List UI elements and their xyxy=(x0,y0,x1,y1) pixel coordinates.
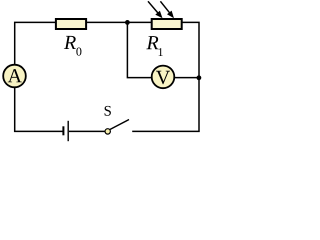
wire: ammeter down across bottom-left corner to battery xyxy=(15,87,63,131)
wire: top middle (R0 to R1) xyxy=(86,21,151,23)
voltmeter V xyxy=(152,66,175,89)
label S xyxy=(105,106,111,116)
node junction right rail xyxy=(197,75,202,80)
wire: voltmeter to right rail xyxy=(174,77,199,79)
label R1 xyxy=(146,36,158,49)
light arrow 1 on R1 xyxy=(148,1,163,18)
wire: R1 right, down right rail, to switch stub xyxy=(132,22,199,131)
resistor R0 xyxy=(56,19,86,29)
resistor R1 (photoresistor) xyxy=(152,19,182,29)
switch S xyxy=(105,120,129,135)
battery (cell) xyxy=(63,121,68,141)
wire: voltmeter branch (junction down, right to voltmeter) xyxy=(127,22,152,77)
wire: top-left run (R0 left, across top-left corner, down to ammeter) xyxy=(15,22,56,65)
light arrow 2 on R1 xyxy=(160,1,174,18)
ammeter A xyxy=(3,65,26,88)
wire: battery to switch xyxy=(69,130,105,132)
node junction top (branch tap) xyxy=(125,20,130,25)
label R0 xyxy=(64,36,76,49)
